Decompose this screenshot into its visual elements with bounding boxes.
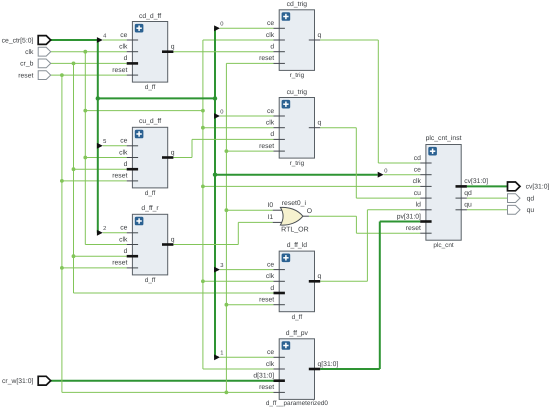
output port qu bbox=[508, 205, 521, 214]
svg-text:clk: clk bbox=[413, 178, 422, 185]
wire ce_ctr bus horizontal link bbox=[98, 97, 215, 99]
svg-text:d_ff_pv: d_ff_pv bbox=[286, 330, 309, 337]
svg-text:cv[31:0]: cv[31:0] bbox=[526, 184, 550, 191]
svg-text:ce: ce bbox=[414, 167, 421, 174]
wire cd_d_ff q to cd_trig d bbox=[173, 51, 273, 53]
junction reset2 bottom bbox=[225, 391, 229, 395]
svg-text:1: 1 bbox=[220, 351, 223, 357]
output port cv[31:0] bbox=[508, 182, 521, 191]
wire clk tap to cu_d_ff clk bbox=[85, 157, 126, 159]
junction cr_b input bbox=[72, 62, 76, 66]
junction cr_b cu_d_ff bbox=[72, 167, 76, 171]
svg-text:q[31:0]: q[31:0] bbox=[318, 361, 339, 368]
wire ce_ctr bus vertical column 2 bbox=[214, 28, 216, 357]
svg-text:cr_w[31:0]: cr_w[31:0] bbox=[2, 378, 33, 385]
wire clk elbow to d_ff_r clk bbox=[85, 244, 126, 246]
svg-text:plc_cnt: plc_cnt bbox=[433, 242, 453, 249]
junction reset2 cu_trig bbox=[225, 149, 229, 153]
input port ce_ctr[5:0] bbox=[38, 36, 51, 45]
input port cr_b bbox=[38, 59, 51, 68]
junction clk input bbox=[83, 50, 87, 54]
svg-text:pv[31:0]: pv[31:0] bbox=[397, 213, 421, 220]
junction bus plc ce bbox=[213, 173, 217, 177]
svg-text:plc_cnt_inst: plc_cnt_inst bbox=[426, 135, 462, 142]
junction cr_b d_ff_r bbox=[72, 254, 76, 258]
svg-text:reset: reset bbox=[112, 173, 127, 180]
wire cd_trig q to plc_cnt cd bbox=[320, 39, 378, 41]
svg-text:d_ff: d_ff bbox=[145, 277, 156, 284]
wire bit2 tap to d_ff_r ce bbox=[103, 232, 127, 234]
wire reset tap to OR gate I0 bbox=[226, 209, 272, 211]
svg-text:O: O bbox=[307, 208, 312, 215]
svg-text:cv[31:0]: cv[31:0] bbox=[464, 178, 488, 185]
svg-text:d: d bbox=[270, 44, 274, 51]
svg-text:I0: I0 bbox=[268, 202, 274, 209]
svg-text:d_ff_ld: d_ff_ld bbox=[287, 242, 308, 249]
junction reset input bbox=[60, 73, 64, 77]
input port cr_w[31:0] bbox=[38, 376, 51, 385]
wire reset vertical column 1 bbox=[61, 75, 63, 392]
wire bit4 tap to cd_d_ff ce bbox=[103, 39, 127, 41]
svg-text:5: 5 bbox=[103, 139, 106, 145]
wire reset vertical column 2 bbox=[225, 63, 227, 392]
bus tap arrow bit 0 cu_trig bbox=[214, 113, 220, 119]
svg-text:qu: qu bbox=[464, 202, 472, 209]
wire reset elbow to cd_trig reset bbox=[226, 62, 273, 64]
wire bit1 tap to d_ff_pv ce bbox=[220, 356, 274, 358]
wire plc_cnt cv[31:0] to output port bbox=[467, 185, 508, 187]
svg-text:q: q bbox=[171, 149, 175, 156]
wire clk elbow to cd_trig clk bbox=[203, 39, 274, 41]
wire bit3 tap to d_ff_ld ce bbox=[220, 269, 274, 271]
svg-text:ce: ce bbox=[267, 261, 274, 268]
svg-text:d_ff: d_ff bbox=[292, 314, 303, 321]
wire clk vertical column 2 bbox=[202, 40, 204, 369]
junction clk cu_trig bbox=[201, 126, 205, 130]
svg-text:ce_ctr[5:0]: ce_ctr[5:0] bbox=[2, 37, 34, 44]
wire OR gate O to plc_cnt reset bbox=[309, 215, 357, 217]
svg-text:reset: reset bbox=[406, 225, 421, 232]
bus tap arrow bit 3 d_ff_ld bbox=[214, 267, 220, 273]
svg-text:reset: reset bbox=[259, 55, 274, 62]
svg-text:d_ff: d_ff bbox=[145, 190, 156, 197]
wire clk elbow to d_ff_pv clk bbox=[203, 368, 274, 370]
svg-text:q: q bbox=[318, 32, 322, 39]
svg-text:q: q bbox=[318, 120, 322, 127]
input port reset bbox=[38, 71, 51, 80]
svg-text:RTL_OR: RTL_OR bbox=[281, 226, 309, 233]
svg-text:clk: clk bbox=[266, 361, 275, 368]
wire d_ff_pv q[31:0] bus to plc_cnt pv bbox=[320, 368, 380, 370]
junction clk link bbox=[83, 109, 87, 113]
wire reset tap to d_ff_ld reset bbox=[226, 304, 273, 306]
junction reset d_ff_r bbox=[60, 266, 64, 270]
svg-text:d: d bbox=[124, 55, 128, 62]
svg-text:reset: reset bbox=[259, 143, 274, 150]
svg-text:clk: clk bbox=[266, 273, 275, 280]
svg-text:d: d bbox=[270, 285, 274, 292]
wire reset tap to d_ff_r reset bbox=[62, 267, 127, 269]
svg-text:q: q bbox=[318, 273, 322, 280]
svg-text:I1: I1 bbox=[268, 214, 274, 221]
svg-text:ce: ce bbox=[267, 349, 274, 356]
wire reset bottom horizontal to d_ff_pv reset bbox=[62, 391, 274, 393]
svg-text:d: d bbox=[270, 131, 274, 138]
bus tap arrow bit 0 plc ce bbox=[378, 172, 384, 178]
svg-text:reset: reset bbox=[112, 260, 127, 267]
bus tap arrow bit 0 cd_trig bbox=[214, 25, 220, 31]
svg-text:cu: cu bbox=[414, 190, 421, 197]
wire cr_b tap to d_ff_r d bbox=[74, 255, 127, 257]
wire bit0 tap to plc_cnt ce bbox=[384, 174, 421, 176]
junction reset2 d_ff_ld bbox=[225, 303, 229, 307]
module cd_trig (r_trig) bbox=[259, 1, 321, 79]
svg-text:d_ff_r: d_ff_r bbox=[141, 205, 159, 212]
svg-text:3: 3 bbox=[220, 262, 223, 269]
wire clk horizontal link to column 2 bbox=[85, 110, 203, 112]
svg-text:d: d bbox=[124, 161, 128, 168]
module cu_trig (r_trig) bbox=[259, 89, 321, 167]
svg-text:d: d bbox=[124, 248, 128, 255]
wire d_ff_ld q to plc_cnt ld bbox=[320, 280, 367, 282]
svg-text:cd_d_ff: cd_d_ff bbox=[139, 13, 161, 20]
wire clk vertical column 1 bbox=[84, 52, 86, 245]
module cu_d_ff (d_ff) bbox=[112, 118, 174, 197]
wire cr_b vertical column bbox=[73, 63, 75, 293]
svg-text:clk: clk bbox=[119, 149, 128, 156]
svg-text:0: 0 bbox=[220, 108, 223, 115]
wire reset tap to cu_trig reset bbox=[226, 150, 273, 152]
wire bit0 tap to cu_trig ce bbox=[220, 115, 274, 117]
svg-text:ld: ld bbox=[416, 202, 422, 209]
junction bus corner1 bbox=[96, 96, 100, 100]
wire cr_b tap to cu_d_ff d bbox=[74, 168, 127, 170]
wire cu_trig q to plc_cnt cu bbox=[320, 127, 356, 129]
wire ce_ctr bus vertical column 1 bbox=[97, 40, 99, 233]
svg-text:reset: reset bbox=[259, 384, 274, 391]
svg-text:reset: reset bbox=[18, 72, 33, 79]
wire clk tap to d_ff_ld clk bbox=[203, 280, 274, 282]
svg-text:r_trig: r_trig bbox=[290, 72, 305, 79]
junction bus corner2 bbox=[213, 96, 217, 100]
junction reset cu_d_ff bbox=[60, 179, 64, 183]
module d_ff_pv (d_ff__parameterized0) bbox=[253, 330, 338, 407]
svg-text:cu_d_ff: cu_d_ff bbox=[139, 118, 161, 125]
svg-text:reset: reset bbox=[112, 67, 127, 74]
svg-text:clk: clk bbox=[266, 120, 275, 127]
svg-text:0: 0 bbox=[220, 21, 223, 28]
svg-text:qd: qd bbox=[527, 195, 535, 202]
svg-text:clk: clk bbox=[119, 44, 128, 51]
wire cr_b horizontal to d_ff_ld d bbox=[74, 292, 274, 294]
wire clk from input port to cd_d_ff clk bbox=[51, 51, 127, 53]
junction reset2 I0 bbox=[225, 208, 229, 212]
svg-text:ce: ce bbox=[267, 108, 274, 115]
svg-text:r_trig: r_trig bbox=[290, 160, 305, 167]
bus tap arrow bit 1 d_ff_pv bbox=[214, 354, 220, 360]
svg-text:ce: ce bbox=[267, 20, 274, 27]
svg-text:ce: ce bbox=[120, 225, 127, 232]
svg-text:qd: qd bbox=[464, 190, 472, 197]
module d_ff_r (d_ff) bbox=[112, 205, 174, 284]
svg-text:qu: qu bbox=[527, 207, 535, 214]
svg-text:cu_trig: cu_trig bbox=[287, 89, 308, 96]
wire ce_ctr[5:0] bus from input port to column 1 bbox=[51, 39, 98, 41]
junction clk cu_d_ff bbox=[83, 156, 87, 160]
wire bit0 tap to cd_trig ce bbox=[220, 27, 274, 29]
svg-text:cd_trig: cd_trig bbox=[287, 1, 308, 8]
svg-text:clk: clk bbox=[266, 32, 275, 39]
svg-text:cd: cd bbox=[414, 155, 421, 162]
wire ce_ctr bus horizontal to plc_cnt ce bbox=[215, 174, 378, 176]
wire d_ff_r q to OR gate I1 bbox=[173, 244, 238, 246]
svg-text:q: q bbox=[171, 44, 175, 51]
svg-text:q: q bbox=[171, 236, 175, 243]
svg-text:clk: clk bbox=[119, 236, 128, 243]
wire reset tap to cu_d_ff reset bbox=[62, 180, 127, 182]
wire reset from input port to cd_d_ff reset bbox=[51, 74, 127, 76]
bus tap arrow bit 5 bbox=[97, 143, 103, 149]
junction clk column2 bbox=[201, 109, 205, 113]
or-gate reset0_i (RTL_OR) bbox=[268, 200, 312, 234]
wire cu_d_ff q to cu_trig d bbox=[173, 157, 192, 159]
output port qd bbox=[508, 194, 521, 203]
wire clk tap to plc_cnt clk bbox=[203, 185, 420, 187]
wire cr_w[31:0] bus from input port to d_ff_pv d bbox=[51, 380, 274, 382]
svg-text:cr_b: cr_b bbox=[20, 61, 33, 68]
bus tap arrow bit 2 bbox=[97, 230, 103, 236]
svg-text:ce: ce bbox=[120, 138, 127, 145]
svg-text:ce: ce bbox=[120, 32, 127, 39]
wire clk tap to cu_trig clk bbox=[203, 127, 274, 129]
svg-text:reset0_i: reset0_i bbox=[282, 200, 307, 207]
svg-text:2: 2 bbox=[103, 225, 106, 232]
wire bit5 tap to cu_d_ff ce bbox=[103, 145, 127, 147]
svg-text:d[31:0]: d[31:0] bbox=[253, 373, 274, 380]
svg-text:d_ff__parameterized0: d_ff__parameterized0 bbox=[266, 400, 329, 407]
module cd_d_ff (d_ff) bbox=[112, 13, 174, 91]
wire plc_cnt qu to output port bbox=[467, 209, 508, 211]
wire plc_cnt qd to output port bbox=[467, 197, 508, 199]
input port clk bbox=[38, 47, 51, 56]
wire cr_b from input port to cd_d_ff d bbox=[51, 62, 127, 64]
svg-text:d_ff: d_ff bbox=[145, 84, 156, 91]
svg-text:reset: reset bbox=[259, 297, 274, 304]
junction clk plc bbox=[201, 185, 205, 189]
bus tap arrow bit 4 bbox=[97, 37, 103, 43]
module plc_cnt_inst (plc_cnt) bbox=[397, 135, 488, 249]
svg-text:clk: clk bbox=[25, 49, 34, 56]
junction clk d_ff_ld bbox=[201, 279, 205, 283]
svg-text:0: 0 bbox=[384, 168, 387, 175]
module d_ff_ld (d_ff) bbox=[259, 242, 321, 321]
